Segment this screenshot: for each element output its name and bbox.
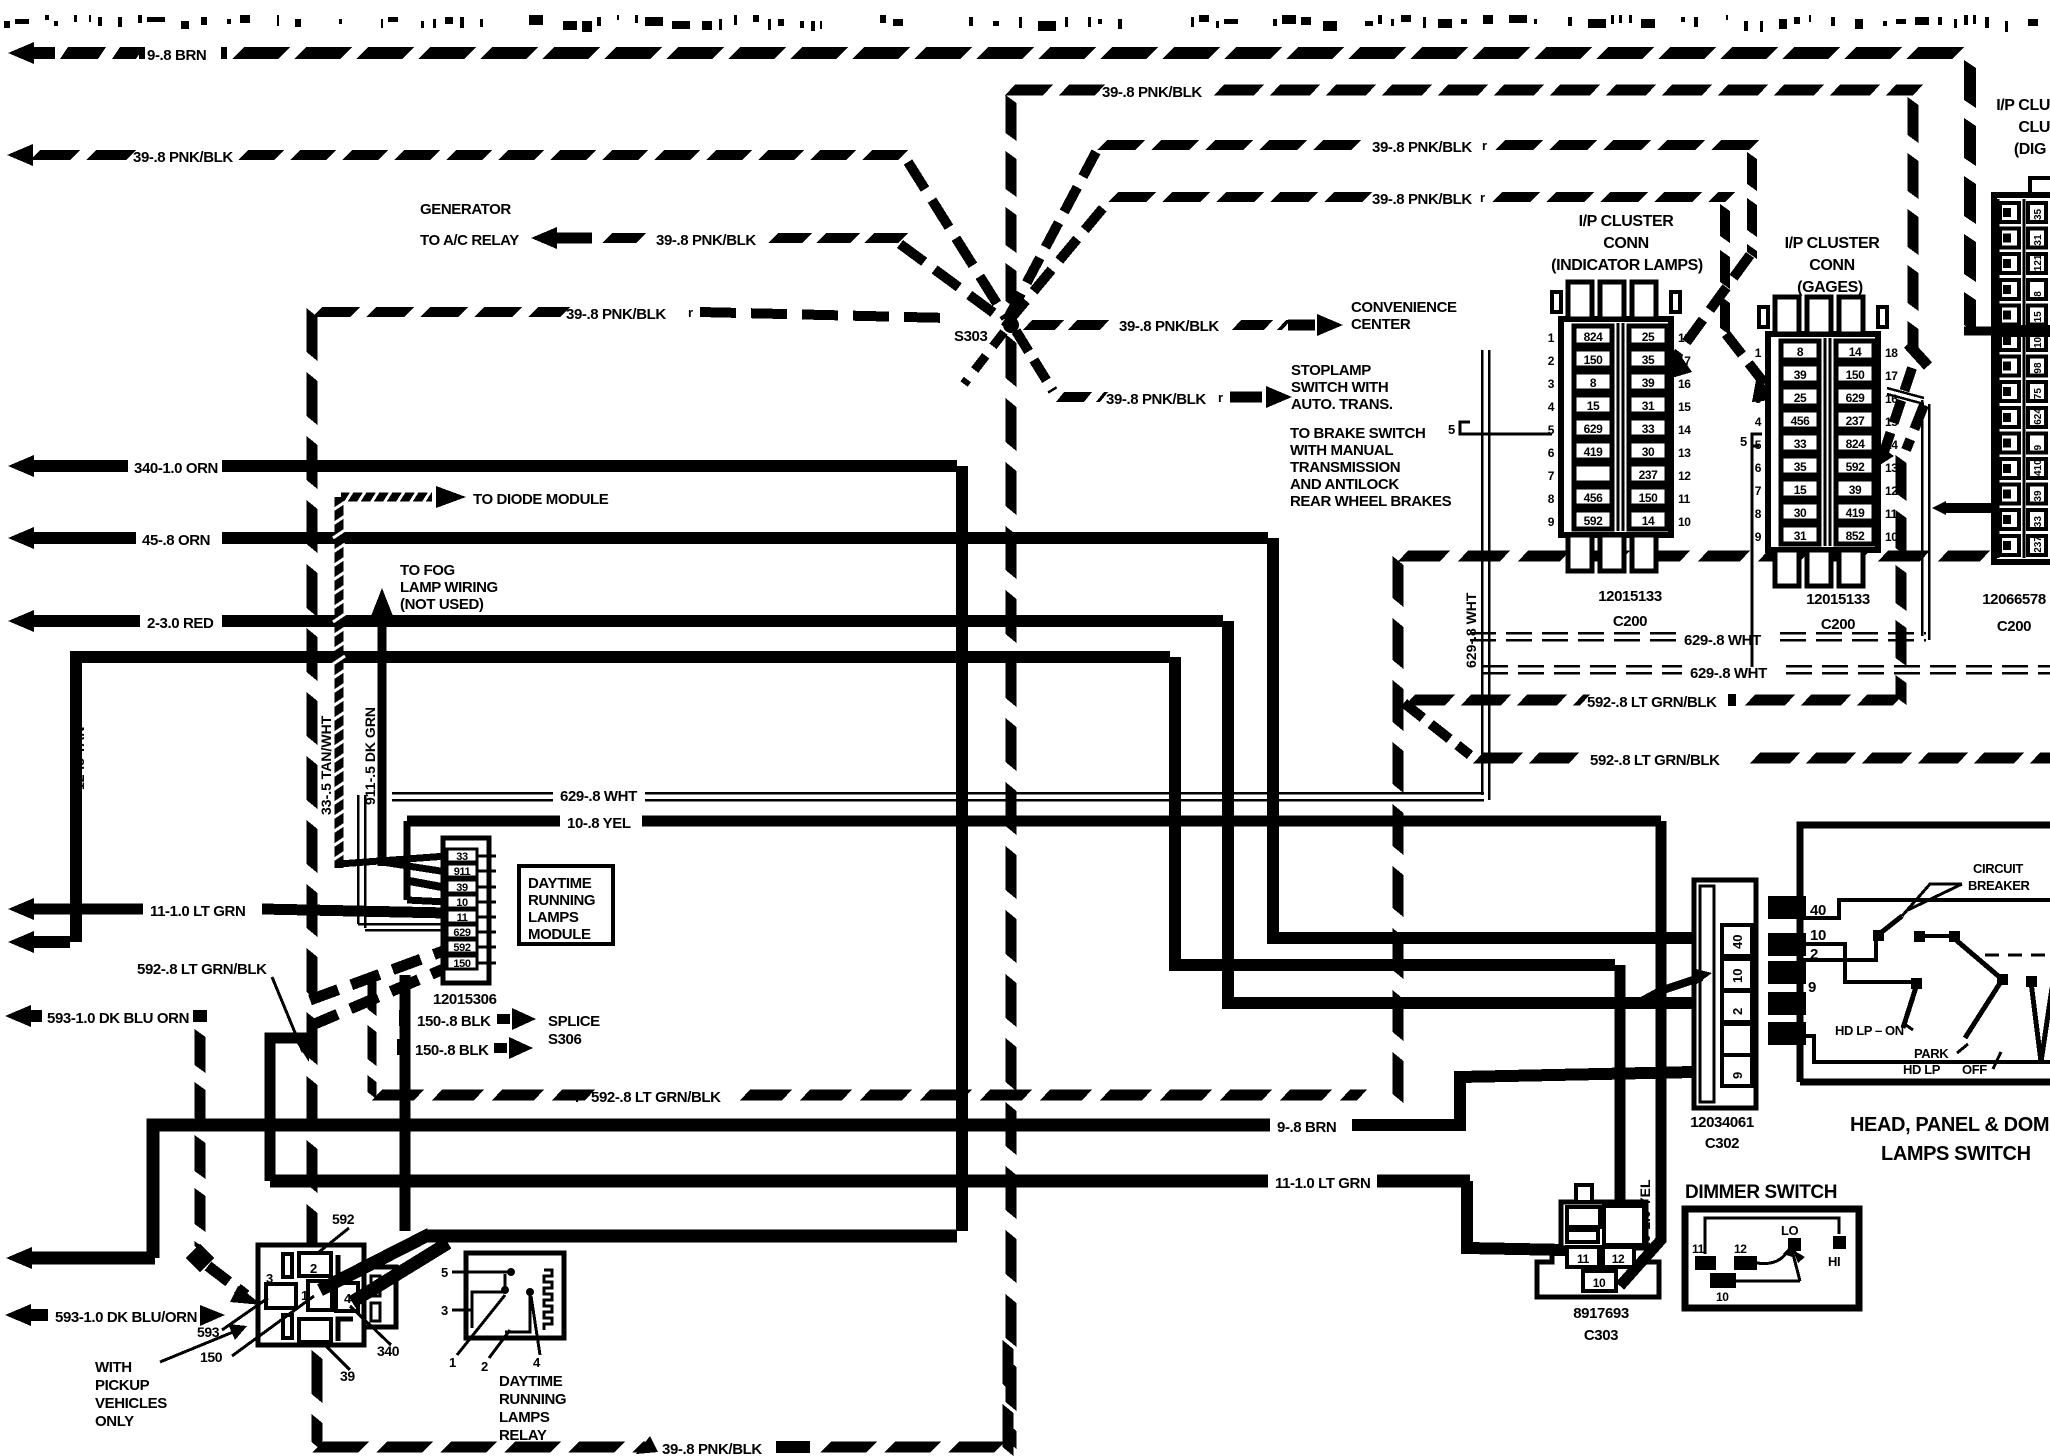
wire 10 module drop bbox=[404, 821, 411, 900]
svg-text:S303: S303 bbox=[954, 328, 987, 345]
wire gages pin5 drop bbox=[1751, 440, 1754, 667]
svg-text:12: 12 bbox=[1678, 469, 1691, 483]
svg-text:25: 25 bbox=[1642, 330, 1655, 344]
svg-text:PARK: PARK bbox=[1914, 1046, 1949, 1061]
wire 12-.8 TAN with left arrow bbox=[8, 931, 34, 953]
svg-text:33: 33 bbox=[1794, 437, 1807, 451]
svg-text:39: 39 bbox=[1642, 376, 1655, 390]
wire 593-1.0 DK BLU ORN with left arrow bbox=[5, 1005, 31, 1027]
svg-text:9: 9 bbox=[2033, 444, 2044, 450]
svg-text:629: 629 bbox=[1846, 391, 1866, 405]
svg-text:39-.8 PNK/BLK: 39-.8 PNK/BLK bbox=[1372, 139, 1472, 156]
svg-text:31: 31 bbox=[1794, 529, 1807, 543]
svg-text:VEHICLES: VEHICLES bbox=[95, 1395, 167, 1412]
svg-text:BREAKER: BREAKER bbox=[1968, 878, 2030, 893]
wire vertical x1175 (12 circuit) to C303 pin 12 bbox=[1175, 657, 1615, 965]
svg-text:39: 39 bbox=[340, 1368, 355, 1384]
svg-text:121: 121 bbox=[2033, 254, 2044, 271]
svg-text:456: 456 bbox=[1791, 414, 1811, 428]
svg-text:6: 6 bbox=[1755, 461, 1762, 475]
svg-text:.: . bbox=[575, 1089, 579, 1106]
svg-text:10: 10 bbox=[1678, 515, 1691, 529]
svg-text:I/P CLU: I/P CLU bbox=[1996, 97, 2050, 114]
svg-text:39-.8 PNK/BLK: 39-.8 PNK/BLK bbox=[1106, 391, 1206, 408]
svg-text:LO: LO bbox=[1781, 1223, 1799, 1238]
wire S303 spoke down-right to stoplamp bbox=[1016, 331, 1053, 391]
svg-text:14: 14 bbox=[1678, 423, 1691, 437]
wire S303 spoke down-left short bbox=[964, 332, 1004, 384]
wire relay pin1 diagonal to 340 bus bbox=[320, 1234, 430, 1290]
wire 33-.5 TAN/WHT hatched vertical bbox=[335, 497, 344, 868]
svg-text:593-1.0 DK BLU/ORN: 593-1.0 DK BLU/ORN bbox=[55, 1309, 197, 1326]
svg-text:18: 18 bbox=[1678, 331, 1691, 345]
svg-text:DIMMER SWITCH: DIMMER SWITCH bbox=[1685, 1182, 1837, 1203]
svg-text:39-.8 PNK/BLK: 39-.8 PNK/BLK bbox=[1372, 191, 1472, 208]
wire relay pin4 diagonal bbox=[352, 1243, 448, 1302]
svg-text:ONLY: ONLY bbox=[95, 1413, 134, 1430]
svg-text:31: 31 bbox=[1642, 399, 1655, 413]
svg-text:C200: C200 bbox=[1997, 618, 2031, 635]
svg-text:629: 629 bbox=[453, 927, 470, 939]
svg-text:10: 10 bbox=[2033, 336, 2044, 348]
svg-text:629-.8 WHT: 629-.8 WHT bbox=[1690, 665, 1767, 682]
svg-text:237: 237 bbox=[1639, 468, 1659, 482]
wire 45-.8 ORN bbox=[8, 527, 34, 549]
wire diagonal between 592 lines bbox=[1404, 703, 1470, 755]
svg-text:340-1.0 ORN: 340-1.0 ORN bbox=[134, 460, 218, 477]
svg-text:15: 15 bbox=[1678, 400, 1691, 414]
svg-text:40: 40 bbox=[1730, 935, 1745, 949]
svg-text:592-.8 LT GRN/BLK: 592-.8 LT GRN/BLK bbox=[591, 1089, 721, 1106]
wire S303 vertical dashed down the page bbox=[1006, 334, 1017, 387]
wire drop x1620 to dimmer conn pin 12 bbox=[1615, 965, 1626, 1247]
svg-text:98: 98 bbox=[2033, 362, 2044, 374]
svg-text:CONN: CONN bbox=[1603, 235, 1649, 252]
svg-text:11: 11 bbox=[1678, 492, 1691, 506]
wire vertical dashed x312 down to DRL relay bbox=[307, 308, 318, 361]
wire vertical x1228 (2 circuit) to C302 pin 2 bbox=[1228, 621, 1694, 1003]
wire 629-.8 WHT double vertical x1482 bbox=[1481, 350, 1484, 795]
wire 593-1.0 DK BLU/ORN bottom label bbox=[5, 1304, 31, 1326]
wire 629-.8 WHT rail 1 (double dashed) bbox=[1470, 632, 1676, 635]
connector C200 I/P cluster (indicator lamps) bbox=[1561, 319, 1671, 535]
splice S303 node bbox=[1003, 317, 1019, 333]
svg-text:TRANSMISSION: TRANSMISSION bbox=[1290, 459, 1400, 476]
svg-text:10: 10 bbox=[1885, 530, 1898, 544]
wire 629-.8 WHT thin double horizontal bbox=[392, 792, 553, 795]
wire dashed corner up x1400 bbox=[1393, 556, 1404, 607]
svg-text:8: 8 bbox=[1548, 492, 1555, 506]
switch dimmer box bbox=[1685, 1209, 1859, 1308]
wire vertical dashed x1725 to gages conn bbox=[1720, 204, 1730, 243]
svg-text:C303: C303 bbox=[1584, 1327, 1618, 1344]
svg-text:14: 14 bbox=[1642, 514, 1655, 528]
svg-text:AUTO. TRANS.: AUTO. TRANS. bbox=[1291, 396, 1393, 413]
svg-text:CONN: CONN bbox=[1809, 257, 1855, 274]
svg-text:11: 11 bbox=[1885, 507, 1898, 521]
wire S303 spoke up to 39-.8 PNK/BLK line D bbox=[1006, 95, 1017, 141]
svg-text:15: 15 bbox=[1587, 399, 1600, 413]
svg-text:593-1.0 DK BLU ORN: 593-1.0 DK BLU ORN bbox=[47, 1010, 189, 1027]
svg-text:REAR WHEEL BRAKES: REAR WHEEL BRAKES bbox=[1290, 493, 1452, 510]
wire diagonal from A/C relay line to S303 bbox=[900, 244, 1006, 322]
svg-text:5: 5 bbox=[1740, 434, 1747, 449]
svg-text:12066578: 12066578 bbox=[1982, 591, 2046, 608]
svg-text:10: 10 bbox=[1810, 927, 1826, 944]
svg-text:12: 12 bbox=[1734, 1242, 1747, 1256]
wire 9 BRN into C303 pin 11 bbox=[1467, 1181, 1567, 1250]
wire S303 spoke to line F (y197) bbox=[1008, 202, 1108, 322]
wire 10-.8 YEL bbox=[407, 816, 560, 827]
svg-text:9-.8 BRN: 9-.8 BRN bbox=[147, 47, 206, 64]
svg-text:35: 35 bbox=[1794, 460, 1807, 474]
svg-text:10: 10 bbox=[1593, 1276, 1606, 1290]
svg-text:150-.8 BLK: 150-.8 BLK bbox=[415, 1042, 489, 1059]
svg-text:AND ANTILOCK: AND ANTILOCK bbox=[1290, 476, 1399, 493]
svg-text:30: 30 bbox=[1642, 445, 1655, 459]
svg-text:10: 10 bbox=[1716, 1290, 1729, 1304]
svg-text:39-.8 PNK/BLK: 39-.8 PNK/BLK bbox=[662, 1441, 762, 1456]
connector C303 8917693 bbox=[1561, 1202, 1646, 1248]
wire 150 dashed diagonal into module bbox=[310, 968, 446, 1026]
wire stub into connector y508 bbox=[1932, 501, 1946, 515]
svg-text:11-1.0 LT GRN: 11-1.0 LT GRN bbox=[150, 903, 245, 920]
svg-text:237: 237 bbox=[2033, 536, 2044, 553]
wire 10-1.0 YEL drop to dimmer conn pin 10 bbox=[1620, 821, 1661, 1286]
svg-text:39: 39 bbox=[1794, 368, 1807, 382]
svg-text:15: 15 bbox=[1794, 483, 1807, 497]
svg-text:SWITCH WITH: SWITCH WITH bbox=[1291, 379, 1388, 396]
svg-text:9: 9 bbox=[1548, 515, 1555, 529]
svg-text:9: 9 bbox=[1730, 1072, 1745, 1079]
svg-text:LAMPS: LAMPS bbox=[528, 909, 579, 926]
scan noise band bbox=[4, 15, 2038, 32]
svg-text:410: 410 bbox=[2033, 459, 2044, 476]
svg-text:r: r bbox=[688, 305, 693, 320]
wire 629-.8 WHT rail 2 (double dashed) bbox=[1482, 665, 1682, 668]
svg-text:1: 1 bbox=[449, 1355, 456, 1370]
svg-text:629-.8 WHT: 629-.8 WHT bbox=[1463, 592, 1479, 668]
svg-text:2: 2 bbox=[481, 1359, 488, 1374]
svg-text:592: 592 bbox=[1584, 514, 1604, 528]
svg-text:911: 911 bbox=[454, 866, 471, 878]
svg-text:39-.8 PNK/BLK: 39-.8 PNK/BLK bbox=[656, 232, 756, 249]
wire 629 module drop bbox=[357, 795, 360, 924]
svg-text:3: 3 bbox=[441, 1303, 448, 1318]
svg-text:7: 7 bbox=[1755, 484, 1762, 498]
svg-text:150: 150 bbox=[1846, 368, 1866, 382]
connector 12015306 DRL module bbox=[443, 838, 489, 983]
svg-text:629-.8 WHT: 629-.8 WHT bbox=[560, 788, 637, 805]
wire 592 stub into module bbox=[310, 950, 446, 1000]
svg-text:33: 33 bbox=[1642, 422, 1655, 436]
wire 11 GRN left riser x270 bbox=[270, 1038, 316, 1181]
svg-text:45-.8 ORN: 45-.8 ORN bbox=[142, 532, 210, 549]
svg-text:11: 11 bbox=[1692, 1242, 1705, 1256]
svg-text:HD LP – ON: HD LP – ON bbox=[1835, 1023, 1904, 1038]
svg-text:CENTER: CENTER bbox=[1351, 316, 1411, 333]
wire 39 stub into module bbox=[404, 880, 447, 888]
svg-text:8: 8 bbox=[1590, 376, 1597, 390]
wire 150 drop x405 bbox=[400, 975, 411, 1231]
svg-text:150: 150 bbox=[1639, 491, 1659, 505]
svg-text:624: 624 bbox=[2033, 408, 2044, 425]
svg-text:39-.8 PNK/BLK: 39-.8 PNK/BLK bbox=[566, 306, 666, 323]
svg-text:TO A/C RELAY: TO A/C RELAY bbox=[420, 232, 519, 249]
svg-text:2: 2 bbox=[1730, 1008, 1745, 1015]
svg-text:WITH MANUAL: WITH MANUAL bbox=[1290, 442, 1393, 459]
lever arrow at C302 pin 10 bbox=[1638, 977, 1702, 1003]
svg-text:4: 4 bbox=[1755, 415, 1762, 429]
svg-text:r: r bbox=[1482, 138, 1487, 153]
svg-text:39-.8 PNK/BLK: 39-.8 PNK/BLK bbox=[1119, 318, 1219, 335]
wire S303 spoke right to convenience center bbox=[1023, 320, 1064, 330]
svg-text:SPLICE: SPLICE bbox=[548, 1013, 600, 1030]
dimmer internals bbox=[1705, 1218, 1839, 1254]
svg-text:CONVENIENCE: CONVENIENCE bbox=[1351, 299, 1457, 316]
svg-text:TO DIODE MODULE: TO DIODE MODULE bbox=[473, 491, 609, 508]
svg-text:12: 12 bbox=[1885, 484, 1898, 498]
svg-text:456: 456 bbox=[1584, 491, 1604, 505]
wire 592-.8 LT GRN/BLK dashed y700 bbox=[1405, 695, 1455, 706]
svg-text:39: 39 bbox=[1849, 483, 1862, 497]
svg-text:WITH: WITH bbox=[95, 1359, 132, 1376]
svg-text:18: 18 bbox=[1885, 346, 1898, 360]
svg-text:150-.8 BLK: 150-.8 BLK bbox=[417, 1013, 491, 1030]
svg-text:13: 13 bbox=[1678, 446, 1691, 460]
wire 11-1.0 LT GRN bus y1181 bbox=[270, 1175, 1268, 1188]
wire diagonal from line B to splice S303 bbox=[908, 162, 1006, 318]
svg-text:33: 33 bbox=[2033, 516, 2044, 528]
svg-text:r: r bbox=[1480, 190, 1485, 205]
svg-text:(GAGES): (GAGES) bbox=[1797, 279, 1863, 296]
svg-text:30: 30 bbox=[1794, 506, 1807, 520]
svg-text:MODULE: MODULE bbox=[528, 926, 591, 943]
svg-text:592: 592 bbox=[332, 1211, 355, 1227]
svg-text:C200: C200 bbox=[1613, 613, 1647, 630]
svg-text:5: 5 bbox=[441, 1265, 448, 1280]
switch head/panel/dome box bbox=[1800, 825, 2050, 1082]
svg-text:824: 824 bbox=[1584, 330, 1604, 344]
svg-text:12: 12 bbox=[1612, 1252, 1625, 1266]
svg-text:340: 340 bbox=[377, 1343, 400, 1359]
svg-text:8: 8 bbox=[1797, 345, 1804, 359]
wire 911-.5 DK GRN vertical with up arrow bbox=[371, 588, 393, 616]
svg-text:35: 35 bbox=[2033, 208, 2044, 220]
svg-text:75: 75 bbox=[2033, 388, 2044, 400]
svg-text:39-.8 PNK/BLK: 39-.8 PNK/BLK bbox=[133, 149, 233, 166]
svg-text:17: 17 bbox=[1678, 354, 1691, 368]
wire 39-.8 PNK/BLK mid-left dashed (corner x312) bbox=[312, 307, 360, 317]
svg-text:CIRCUIT: CIRCUIT bbox=[1973, 861, 2023, 876]
wire 340 bus y1236 from relay bbox=[425, 1230, 957, 1243]
wire TO DIODE MODULE (hatched) bbox=[341, 493, 432, 502]
svg-text:419: 419 bbox=[1846, 506, 1866, 520]
svg-text:I/P CLUSTER: I/P CLUSTER bbox=[1579, 213, 1675, 230]
svg-text:r: r bbox=[1218, 390, 1223, 405]
wire vertical dashed x1752 to indicator conn bbox=[1747, 152, 1757, 191]
svg-text:629-.8 WHT: 629-.8 WHT bbox=[1684, 632, 1761, 649]
wire arrow into gages 592 row bbox=[1884, 368, 1912, 452]
svg-text:8917693: 8917693 bbox=[1573, 1305, 1629, 1322]
svg-text:12-.8 TAN: 12-.8 TAN bbox=[71, 726, 87, 790]
svg-text:8: 8 bbox=[2033, 291, 2044, 297]
svg-text:592: 592 bbox=[453, 942, 470, 954]
svg-text:DAYTIME: DAYTIME bbox=[528, 875, 592, 892]
svg-text:150: 150 bbox=[453, 958, 470, 970]
wire 39-.8 PNK/BLK bottom dashed bbox=[312, 1350, 323, 1403]
svg-text:DAYTIME: DAYTIME bbox=[499, 1373, 563, 1390]
svg-text:3: 3 bbox=[266, 1271, 273, 1286]
wire 2-3.0 RED bbox=[8, 610, 34, 632]
wire 592-.8 LT GRN/BLK dashed y758 bbox=[1473, 753, 1523, 764]
wire 9-.8 BRN top dashed line with left arrow bbox=[8, 42, 34, 64]
svg-text:OFF: OFF bbox=[1962, 1062, 1987, 1077]
wire dashed y556 to right edge bbox=[1398, 551, 1450, 562]
svg-text:35: 35 bbox=[1642, 353, 1655, 367]
svg-text:(INDICATOR LAMPS): (INDICATOR LAMPS) bbox=[1551, 257, 1703, 274]
svg-text:12015133: 12015133 bbox=[1598, 588, 1662, 605]
svg-text:LAMP WIRING: LAMP WIRING bbox=[400, 579, 498, 596]
svg-text:16: 16 bbox=[1678, 377, 1691, 391]
svg-text:15: 15 bbox=[2033, 311, 2044, 323]
svg-text:4: 4 bbox=[1548, 400, 1555, 414]
svg-text:HI: HI bbox=[1828, 1254, 1840, 1269]
svg-text:HEAD, PANEL & DOM: HEAD, PANEL & DOM bbox=[1850, 1114, 2049, 1136]
svg-text:8: 8 bbox=[1755, 507, 1762, 521]
svg-text:RELAY: RELAY bbox=[499, 1427, 547, 1444]
wire 150-.8 BLK stub 2 bbox=[397, 1039, 408, 1055]
connector DRL relay (pin cavities) bbox=[258, 1245, 364, 1345]
svg-text:4: 4 bbox=[533, 1355, 541, 1370]
wire 340-1.0 ORN bbox=[8, 455, 34, 477]
svg-text:12015133: 12015133 bbox=[1806, 591, 1870, 608]
svg-text:C200: C200 bbox=[1821, 616, 1855, 633]
svg-text:GENERATOR: GENERATOR bbox=[420, 201, 511, 218]
svg-text:11-1.0 LT GRN: 11-1.0 LT GRN bbox=[1275, 1175, 1370, 1192]
wire 629 riser to gages pin 16 bbox=[1921, 400, 1924, 636]
svg-text:629: 629 bbox=[1584, 422, 1604, 436]
svg-text:592-.8 LT GRN/BLK: 592-.8 LT GRN/BLK bbox=[137, 961, 267, 978]
svg-text:STOPLAMP: STOPLAMP bbox=[1291, 362, 1371, 379]
svg-text:13: 13 bbox=[1885, 461, 1898, 475]
svg-text:LAMPS: LAMPS bbox=[499, 1409, 550, 1426]
wire 150-.8 BLK stub 1 to splice S306 bbox=[399, 1010, 410, 1026]
svg-text:824: 824 bbox=[1846, 437, 1866, 451]
svg-text:25: 25 bbox=[1794, 391, 1807, 405]
svg-text:419: 419 bbox=[1584, 445, 1604, 459]
svg-text:3: 3 bbox=[1755, 392, 1762, 406]
svg-text:12034061: 12034061 bbox=[1690, 1114, 1754, 1131]
svg-text:911-.5 DK GRN: 911-.5 DK GRN bbox=[362, 707, 378, 805]
svg-text:1: 1 bbox=[1755, 346, 1762, 360]
svg-text:2: 2 bbox=[1755, 369, 1762, 383]
svg-text:RUNNING: RUNNING bbox=[528, 892, 595, 909]
wire 9-.8 BRN vertical drop at right bbox=[1964, 60, 1976, 108]
wire vertical dashed x1913 bbox=[1908, 97, 1919, 143]
svg-text:592: 592 bbox=[1846, 460, 1866, 474]
svg-text:31: 31 bbox=[2033, 234, 2044, 246]
svg-text:PICKUP: PICKUP bbox=[95, 1377, 150, 1394]
switch internal wiring bbox=[1800, 900, 2050, 918]
svg-text:LAMPS SWITCH: LAMPS SWITCH bbox=[1881, 1143, 2031, 1165]
wire S303 spoke to line E (y145) bbox=[1008, 150, 1097, 318]
svg-text:237: 237 bbox=[1846, 414, 1866, 428]
svg-text:9: 9 bbox=[1808, 979, 1816, 996]
svg-text:150: 150 bbox=[1584, 353, 1604, 367]
wire vertical x1273 (45 circuit) to C302 pin 40 bbox=[1273, 538, 1694, 938]
svg-text:6: 6 bbox=[1548, 446, 1555, 460]
svg-text:2: 2 bbox=[1548, 354, 1555, 368]
svg-text:3: 3 bbox=[1548, 377, 1555, 391]
svg-text:1: 1 bbox=[1548, 331, 1555, 345]
wire vertical x962 (340 circuit) bbox=[956, 466, 968, 1231]
svg-text:S306: S306 bbox=[548, 1031, 581, 1048]
svg-text:39-.8 PNK/BLK: 39-.8 PNK/BLK bbox=[1102, 84, 1202, 101]
svg-text:11: 11 bbox=[1577, 1252, 1590, 1266]
svg-text:TO BRAKE SWITCH: TO BRAKE SWITCH bbox=[1290, 425, 1425, 442]
svg-text:150: 150 bbox=[200, 1349, 223, 1365]
svg-text:11: 11 bbox=[457, 912, 468, 924]
svg-text:2: 2 bbox=[310, 1261, 317, 1276]
svg-text:33: 33 bbox=[456, 851, 468, 863]
svg-text:9: 9 bbox=[1755, 530, 1762, 544]
wire 592-.8 LT GRN/BLK dashed horizontal bbox=[372, 1090, 424, 1101]
svg-text:33-.5 TAN/WHT: 33-.5 TAN/WHT bbox=[318, 715, 334, 815]
svg-text:17: 17 bbox=[1885, 369, 1898, 383]
black tabs and labels 40/10/2/9 bbox=[1768, 896, 1806, 919]
svg-text:(DIG: (DIG bbox=[2014, 141, 2046, 158]
wire 592 riser dashed x1901 bbox=[1896, 455, 1907, 501]
svg-text:2-3.0 RED: 2-3.0 RED bbox=[147, 615, 214, 632]
svg-text:5: 5 bbox=[1448, 422, 1455, 437]
svg-text:592-.8 LT GRN/BLK: 592-.8 LT GRN/BLK bbox=[1587, 694, 1717, 711]
svg-text:592-.8 LT GRN/BLK: 592-.8 LT GRN/BLK bbox=[1590, 752, 1720, 769]
wire 592 dashed drop x372 bbox=[368, 975, 377, 1016]
svg-text:593: 593 bbox=[197, 1324, 220, 1340]
svg-text:TO FOG: TO FOG bbox=[400, 562, 455, 579]
wire 39-.8 PNK/BLK upper left dashed bbox=[7, 144, 33, 166]
svg-text:10: 10 bbox=[1730, 969, 1745, 983]
svg-text:CLU: CLU bbox=[2018, 119, 2050, 136]
svg-text:39: 39 bbox=[2033, 490, 2044, 502]
svg-text:RUNNING: RUNNING bbox=[499, 1391, 566, 1408]
label DAYTIME RUNNING LAMPS MODULE box bbox=[519, 866, 613, 944]
wire 11-1.0 LT GRN into module pin 11 bbox=[8, 898, 34, 920]
svg-text:7: 7 bbox=[1548, 469, 1555, 483]
svg-text:HD LP: HD LP bbox=[1903, 1062, 1941, 1077]
wire 9-.8 BRN bus y1125 bbox=[153, 1125, 1270, 1258]
relay K1 daytime running lamps relay symbol bbox=[466, 1253, 564, 1338]
svg-text:9-.8 BRN: 9-.8 BRN bbox=[1277, 1119, 1336, 1136]
connector C200 I/P cluster (gages) bbox=[1768, 334, 1878, 550]
svg-text:10: 10 bbox=[456, 897, 468, 909]
svg-text:(NOT USED): (NOT USED) bbox=[400, 596, 484, 613]
svg-text:852: 852 bbox=[1846, 529, 1866, 543]
svg-text:C302: C302 bbox=[1705, 1135, 1739, 1152]
svg-text:12015306: 12015306 bbox=[433, 991, 497, 1008]
svg-text:10-.8 YEL: 10-.8 YEL bbox=[567, 815, 631, 832]
connector C302 12034061 bbox=[1694, 880, 1756, 1108]
svg-text:I/P CLUSTER: I/P CLUSTER bbox=[1785, 235, 1881, 252]
svg-text:39: 39 bbox=[456, 882, 468, 894]
svg-text:14: 14 bbox=[1849, 345, 1862, 359]
